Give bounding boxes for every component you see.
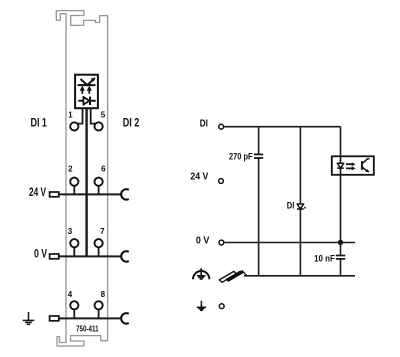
svg-text:270 pF: 270 pF — [229, 151, 253, 162]
wire 0V — [224, 242, 355, 244]
svg-text:3: 3 — [68, 227, 73, 236]
svg-text:5: 5 — [101, 110, 106, 119]
arc 0V — [121, 251, 129, 261]
clamp 24V — [50, 192, 59, 197]
capacitor C2 10 nF — [336, 256, 345, 259]
wire C2 to bottom rail — [340, 259, 342, 276]
terminal DI — [219, 124, 224, 129]
arc earth — [121, 313, 129, 323]
DIN rail contact symbol — [219, 270, 247, 283]
bottom rail wire — [244, 275, 355, 277]
svg-text:DI 1: DI 1 — [31, 118, 48, 130]
junction dot 0V — [338, 240, 343, 245]
clamp earth — [50, 316, 59, 321]
svg-text:750-411: 750-411 — [76, 325, 99, 334]
terminal 2 — [70, 178, 78, 186]
wire stem terminal 6 — [98, 186, 100, 195]
svg-text:0 V: 0 V — [196, 235, 210, 247]
terminal 5 — [95, 122, 103, 130]
wire C1 branch lower — [258, 158, 260, 276]
wire from LED box to terminal 5 — [91, 107, 96, 124]
wire C1 branch upper — [258, 127, 260, 155]
terminal 8 — [95, 301, 103, 309]
LED DI indicator diode — [297, 204, 306, 209]
svg-text:8: 8 — [101, 290, 106, 299]
module 750-411 body outline — [56, 11, 107, 346]
svg-text:24 V: 24 V — [29, 187, 46, 199]
wire stem terminal 2 — [73, 186, 75, 195]
svg-text:DI 2: DI 2 — [123, 118, 140, 130]
terminal 6 — [95, 178, 103, 186]
center bus wire — [85, 107, 87, 256]
terminal 4 — [70, 301, 78, 309]
wire stem terminal 3 — [73, 247, 75, 256]
svg-text:24 V: 24 V — [190, 170, 208, 182]
24V row line — [59, 193, 122, 195]
op-coupler U1 — [332, 156, 374, 175]
svg-text:1: 1 — [68, 110, 73, 119]
wire DI top — [224, 126, 341, 128]
wire LED branch upper — [299, 127, 301, 204]
svg-text:6: 6 — [101, 165, 106, 174]
wire from LED box to terminal 1 — [77, 107, 82, 124]
svg-text:DI: DI — [200, 118, 208, 130]
wire optocoupler branch — [340, 127, 342, 243]
earth symbol schematic — [197, 301, 206, 311]
terminal 3 — [70, 239, 78, 247]
wire stem terminal 4 — [73, 309, 75, 318]
terminal earth — [219, 304, 224, 309]
svg-text:2: 2 — [68, 165, 73, 174]
wire LED branch lower — [299, 209, 301, 276]
svg-text:10 nF: 10 nF — [314, 254, 335, 265]
wire junction to C2 — [340, 243, 342, 256]
terminal 24V — [219, 179, 224, 184]
0V row line — [59, 255, 122, 257]
wire stem terminal 8 — [98, 309, 100, 318]
clamp 0V — [50, 254, 59, 259]
capacitor C1 270 pF — [254, 154, 263, 158]
terminal 1 — [70, 122, 78, 130]
svg-text:4: 4 — [68, 290, 73, 299]
LED indicator box U-LED — [75, 75, 98, 109]
wire stem terminal 7 — [98, 247, 100, 256]
arc 24V — [121, 189, 129, 199]
earth row line — [59, 317, 122, 319]
svg-text:7: 7 — [100, 227, 105, 236]
shield-to-earth symbol — [193, 268, 209, 279]
terminal 7 — [95, 239, 103, 247]
svg-text:0 V: 0 V — [34, 249, 47, 261]
terminal 0V — [219, 240, 224, 245]
svg-text:DI: DI — [287, 201, 295, 212]
module earth symbol — [23, 312, 35, 324]
